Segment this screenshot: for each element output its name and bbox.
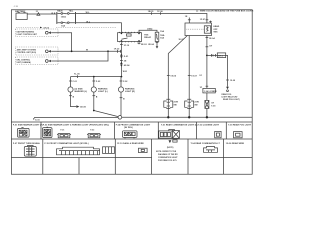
svg-text:COMBINATION LIGHT: COMBINATION LIGHT (158, 156, 178, 159)
svg-text:TAIL: TAIL (69, 10, 74, 13)
svg-text:15A: 15A (61, 25, 65, 28)
svg-text:1E-04: 1E-04 (209, 37, 215, 40)
svg-text:T-02 LICENSE LIGHT: T-02 LICENSE LIGHT (198, 124, 220, 126)
svg-text:REAR FOG: REAR FOG (222, 93, 232, 96)
svg-text:CONTROL UNIT (W-S): CONTROL UNIT (W-S) (17, 52, 37, 54)
svg-text:21W: 21W (174, 102, 178, 104)
svg-text:1S-06: 1S-06 (170, 76, 176, 78)
svg-text:1F-07: 1F-07 (200, 19, 206, 21)
svg-text:W-R: W-R (123, 71, 128, 73)
svg-text:(W/ DRL): (W/ DRL) (124, 127, 133, 129)
svg-text:1F-10: 1F-10 (114, 49, 120, 51)
svg-text:15A: 15A (160, 30, 164, 33)
svg-text:C-04 LICENSE: C-04 LICENSE (204, 90, 218, 93)
svg-text:F-02 SIDE MARKER LIGHT & PARKI: F-02 SIDE MARKER LIGHT & PARKING LIGHT (… (43, 123, 109, 126)
svg-text:2J: 2J (36, 11, 38, 13)
svg-text:W-B: W-B (51, 13, 56, 15)
svg-text:21W: 21W (195, 102, 199, 104)
svg-text:DIAGRAM OF THE RR: DIAGRAM OF THE RR (158, 153, 178, 156)
svg-text:T-04 REAR COMBINATION LT: T-04 REAR COMBINATION LT (191, 142, 221, 145)
svg-text:G-15: G-15 (35, 120, 41, 122)
svg-text:FOR REAR FOG SYS: FOR REAR FOG SYS (158, 159, 177, 162)
svg-text:1S-07: 1S-07 (191, 76, 197, 78)
svg-text:PARKING: PARKING (98, 87, 108, 90)
svg-text:PARKING: PARKING (125, 87, 135, 90)
svg-text:(NOTE): (NOTE) (167, 147, 174, 149)
svg-text:TNS: TNS (213, 31, 218, 33)
svg-text:UNIT (CANADA): UNIT (CANADA) (17, 61, 32, 64)
svg-text:F-02: F-02 (90, 130, 94, 132)
svg-text:1F-06: 1F-06 (157, 11, 163, 13)
svg-text:NOTE: REFER TO THE: NOTE: REFER TO THE (156, 151, 177, 153)
svg-text:LIGHT CONTROL UNIT: LIGHT CONTROL UNIT (17, 34, 38, 36)
svg-text:2E-04: 2E-04 (148, 43, 154, 46)
svg-text:1B-01: 1B-01 (148, 11, 155, 13)
svg-text:LIGHT (R): LIGHT (R) (125, 91, 135, 93)
svg-text:1E-03: 1E-03 (179, 39, 184, 41)
svg-text:4X-09: 4X-09 (80, 106, 86, 109)
svg-text:GY-1: GY-1 (218, 55, 224, 57)
svg-text:5W: 5W (174, 105, 177, 107)
svg-text:TL-05: TL-05 (74, 74, 80, 76)
svg-text:W: W (86, 50, 88, 52)
svg-text:T-03 REAR FOG LIGHT: T-03 REAR FOG LIGHT (228, 123, 252, 126)
svg-text:J-18: J-18 (14, 6, 19, 8)
svg-text:100A: 100A (61, 15, 67, 18)
svg-text:5W: 5W (195, 105, 198, 107)
svg-text:LIGHT (L): LIGHT (L) (98, 91, 108, 93)
svg-text:4X-04: 4X-04 (124, 64, 130, 67)
svg-text:RELAY: RELAY (144, 36, 152, 39)
svg-text:2E-03: 2E-03 (141, 44, 147, 46)
svg-text:1F-10: 1F-10 (124, 45, 130, 47)
svg-text:T-01 REAR COMBINATION LIGHT (L: T-01 REAR COMBINATION LIGHT (L) (161, 123, 198, 126)
svg-text:1S-06 REAR WIRE: 1S-06 REAR WIRE (226, 142, 245, 145)
svg-text:F-07 FRONT TURN SIGNAL: F-07 FRONT TURN SIGNAL (13, 142, 41, 145)
svg-text:REAR FOG LIGHT): REAR FOG LIGHT) (223, 98, 240, 101)
svg-text:HEAD: HEAD (213, 25, 219, 28)
svg-text:F-04 FRONT COMBINATION LIGHT: F-04 FRONT COMBINATION LIGHT (116, 123, 151, 126)
svg-text:15A: 15A (160, 37, 164, 40)
svg-text:( ) : WIRE COLOR INDICATED ON: ( ) : WIRE COLOR INDICATED ON THE FUSE B… (196, 9, 254, 12)
svg-text:LIGHT RELAY (W/: LIGHT RELAY (W/ (222, 96, 238, 99)
svg-text:1S-08: 1S-08 (230, 80, 235, 82)
svg-text:F-01: F-01 (61, 130, 65, 132)
svg-text:F-15 FRONT COMBINATION LIGHT (: F-15 FRONT COMBINATION LIGHT (W/ DRL) (45, 142, 89, 145)
svg-text:F-01 SIDE MARKER LIGHT (F): F-01 SIDE MARKER LIGHT (F) (13, 123, 43, 126)
svg-text:MAIN: MAIN (57, 10, 63, 13)
svg-text:MARKER (L): MARKER (L) (75, 90, 88, 93)
svg-text:1F-10 DASH & REAR WIRE: 1F-10 DASH & REAR WIRE (117, 142, 144, 145)
svg-text:(15A): (15A) (147, 28, 153, 31)
